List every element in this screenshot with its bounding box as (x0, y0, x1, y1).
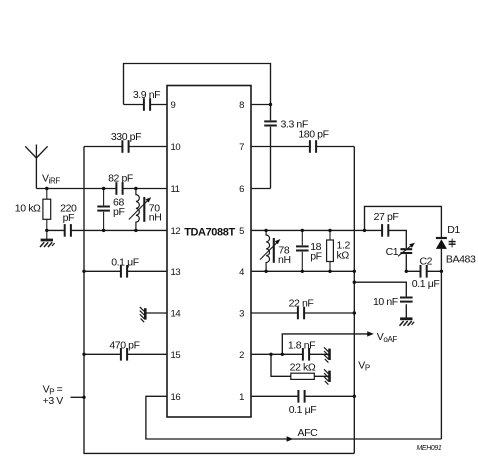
junction Vp line/pin4 row (353, 270, 356, 273)
svg-text:0.1 μF: 0.1 μF (111, 256, 139, 268)
resistor 10 kOhm (43, 189, 51, 241)
wire pin 5 row through 27pF to C1 (251, 230, 406, 249)
hatch terminator at 1.8 nF (324, 347, 330, 362)
svg-text:TDA7088T: TDA7088T (184, 227, 235, 239)
junction 1.2k bottom (328, 270, 331, 273)
junction 70nH bottom (134, 229, 137, 232)
svg-text:C2: C2 (420, 256, 433, 268)
junction pin2 row/22k branch (269, 353, 272, 356)
wire pin 8 stub (251, 104, 271, 106)
capacitor 0.1 uF (pin 1) (298, 389, 304, 404)
capacitor 330 pF (pin 10) (122, 139, 128, 154)
svg-text:pF: pF (63, 212, 74, 224)
svg-text:10 kΩ: 10 kΩ (15, 203, 41, 215)
svg-text:MEH091: MEH091 (417, 445, 442, 452)
junction Vp line/pin3 row (353, 311, 356, 314)
wire 27pF bypass to D1 cathode (365, 206, 442, 237)
junction 78nH bottom (264, 270, 267, 273)
svg-text:1: 1 (239, 392, 244, 403)
svg-text:0.1 μF: 0.1 μF (412, 278, 440, 290)
wire pin 6 stub (251, 188, 271, 190)
junction antenna/10k node (45, 187, 48, 190)
svg-text:13: 13 (171, 267, 181, 278)
capacitor 0.1 uF (pin 13) (121, 264, 127, 279)
junction Vp line/pin1 row (353, 395, 356, 398)
hatch terminator at 22 kOhm (324, 369, 330, 384)
junction pin8/3.3nF bus (269, 103, 272, 106)
svg-text:12: 12 (171, 226, 181, 237)
svg-text:4: 4 (239, 267, 244, 278)
wire VoAF takeoff (282, 334, 371, 354)
wire left vertical bus (84, 147, 354, 454)
junction bus/pin13 row (82, 270, 85, 273)
capacitor 22 nF (pin 3) (298, 306, 304, 321)
inductor 70 nH variable (129, 189, 151, 231)
capacitor 27 pF (382, 223, 388, 238)
wire pin 13 row (84, 270, 167, 272)
svg-text:14: 14 (171, 309, 181, 320)
svg-text:0.1 μF: 0.1 μF (289, 404, 317, 416)
svg-text:3: 3 (239, 309, 244, 320)
svg-text:C1: C1 (386, 246, 399, 258)
svg-text:27 pF: 27 pF (374, 211, 399, 223)
svg-text:330 pF: 330 pF (111, 131, 141, 143)
wire 22k branch (271, 354, 329, 376)
svg-text:82 pF: 82 pF (108, 173, 133, 185)
wire 10nF to ground (405, 304, 407, 318)
ground (below 10 kOhm) (40, 240, 55, 247)
arrow VoAF output (367, 331, 374, 336)
junction 1.2k top (328, 229, 331, 232)
svg-text:22 kΩ: 22 kΩ (290, 361, 316, 373)
svg-text:pF: pF (113, 206, 124, 218)
wire Vp supply stub (71, 396, 85, 398)
wire pin 12 row (47, 229, 167, 231)
svg-text:470 pF: 470 pF (109, 340, 139, 352)
wire pin 16 to AFC line (146, 396, 442, 439)
capacitor 3.9 nF (pin 9) (144, 97, 150, 112)
junction bus/Vp stub (82, 396, 85, 399)
wire pin 3 row 22nF (251, 312, 354, 314)
wire pin 4 row (251, 270, 354, 272)
wire pin 15 row (84, 353, 167, 355)
svg-text:1.8 nF: 1.8 nF (288, 340, 315, 352)
junction 18pF bottom (301, 270, 304, 273)
op-amp U1 IC TDA7088T outline (167, 86, 251, 418)
svg-text:16: 16 (171, 392, 181, 403)
svg-text:8: 8 (239, 100, 244, 111)
svg-text:VoAF: VoAF (377, 331, 398, 344)
arrow AFC (287, 436, 294, 441)
resistor 1.2 kOhm (tank) (327, 230, 334, 271)
ground (below 10 nF) (400, 319, 415, 326)
wire pin 14 stub (147, 312, 168, 314)
capacitor 82 pF (pin 11) (116, 181, 122, 196)
wire pin 1 row 0.1uF to Vp line (251, 395, 354, 397)
inductor 78 nH variable (260, 230, 280, 271)
svg-text:VP: VP (358, 360, 370, 373)
junction 10k/220pF/ground node (45, 229, 48, 232)
junction Vp line/10nF row (353, 281, 356, 284)
capacitor 3.3 nF (pin8 to pin6 bus) (263, 120, 278, 126)
wire Vp line to 10nF branch (354, 282, 406, 297)
wire pin 9 row (124, 104, 168, 106)
svg-text:22 nF: 22 nF (289, 297, 314, 309)
capacitor C1 variable arrow (398, 243, 415, 257)
junction D1 anode/C2 (440, 270, 443, 273)
svg-text:nH: nH (278, 254, 291, 266)
junction bus/pin15 row (82, 353, 85, 356)
junction pin2 row/VoAF stub (281, 353, 284, 356)
svg-text:kΩ: kΩ (337, 249, 350, 261)
svg-text:9: 9 (171, 100, 176, 111)
capacitor 68 pF (pin11-pin12 shunt) (96, 189, 111, 231)
junction 68pF top (102, 187, 105, 190)
junction C1 bottom node (405, 270, 408, 273)
junction 70nH top (134, 187, 137, 190)
svg-text:D1: D1 (447, 224, 460, 236)
svg-text:10 nF: 10 nF (373, 296, 398, 308)
svg-text:2: 2 (239, 350, 244, 361)
svg-text:pF: pF (310, 251, 321, 263)
antenna (25, 145, 47, 189)
svg-text:11: 11 (171, 184, 180, 195)
svg-text:+3 V: +3 V (43, 395, 64, 407)
svg-text:15: 15 (171, 350, 181, 361)
junction 68pF bottom (102, 229, 105, 232)
capacitor 18 pF (tank) (295, 230, 310, 271)
svg-text:7: 7 (239, 142, 244, 153)
hatch terminator at pin 14 (140, 307, 146, 322)
svg-text:BA483: BA483 (446, 253, 476, 265)
svg-text:AFC: AFC (298, 427, 319, 439)
resistor 22 kOhm (291, 373, 315, 379)
capacitor C2 0.1 uF (421, 264, 427, 279)
varicap mark beside D1 (449, 239, 456, 248)
wire pin 2 row 1.8nF (251, 353, 329, 355)
wire top feedback loop pin9 to pin8 bus (124, 64, 271, 105)
wire pin 10 row (84, 146, 167, 148)
diode D1 BA483 (436, 238, 447, 249)
wire pin 7 row 180pF to Vp line (251, 146, 354, 148)
wire antenna to pin 11 row (36, 188, 167, 190)
junction 18pF top (301, 229, 304, 232)
svg-text:180 pF: 180 pF (298, 129, 328, 141)
wire D1 anode down to AFC line (440, 249, 442, 439)
junction 78nH top (264, 229, 267, 232)
junction 27pF bypass tee (363, 229, 366, 232)
svg-text:nH: nH (149, 212, 162, 224)
svg-text:ViRF: ViRF (42, 173, 60, 186)
capacitor 470 pF (pin 15) (121, 347, 127, 362)
wire C1 bottom to C2 row to D1 anode (406, 253, 441, 271)
svg-text:5: 5 (239, 226, 244, 237)
svg-text:3.9 nF: 3.9 nF (133, 89, 160, 101)
capacitor 220 pF (pin 12) (65, 223, 71, 238)
wire right bus pin8 to pin6 with 3.3nF (270, 105, 272, 189)
capacitor C1 variable (plates) (399, 248, 413, 254)
capacitor 180 pF (pin 7) (310, 139, 316, 154)
wire right Vp vertical line (353, 147, 355, 454)
capacitor 10 nF (399, 296, 414, 302)
svg-text:6: 6 (239, 184, 244, 195)
svg-text:10: 10 (171, 142, 181, 153)
capacitor 1.8 nF (pin 2) (303, 347, 309, 362)
